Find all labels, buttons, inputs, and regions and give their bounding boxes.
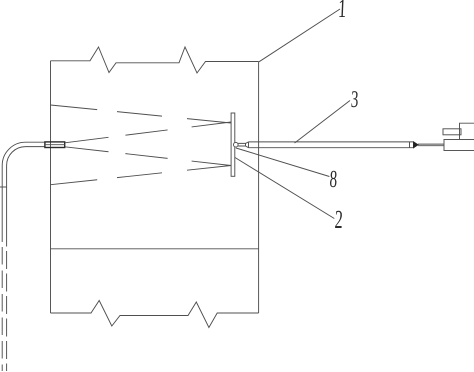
spray line upper from wall: [51, 105, 232, 123]
inner horizontal line: [51, 248, 259, 250]
label 3: [350, 87, 359, 113]
rod tip cone: [414, 142, 419, 148]
svg-text:3: 3: [350, 87, 359, 113]
tank right wall: [258, 62, 260, 314]
spray line upper from nozzle: [65, 122, 231, 143]
svg-text:2: 2: [334, 205, 343, 234]
label 8: [329, 167, 338, 193]
leader line 8: [236, 148, 329, 177]
spray line lower from wall: [51, 166, 232, 185]
label 1: [337, 0, 347, 23]
pipe connector block: [45, 142, 65, 148]
pipe joint tick: [0, 186, 7, 188]
leader line 1: [259, 9, 340, 62]
svg-text:1: 1: [337, 0, 347, 23]
drive block body: [444, 140, 474, 151]
tank top edge with break lines: [51, 47, 259, 73]
label 2: [334, 205, 343, 234]
small block on top: [443, 129, 461, 135]
inlet pipe hidden portion (dashed): [1, 242, 3, 371]
thin shaft link: [418, 144, 444, 146]
spray line lower from nozzle: [65, 147, 231, 166]
leader line 3: [295, 101, 350, 144]
inlet pipe outer wall: [2, 142, 45, 242]
rod 3 body: [249, 142, 414, 148]
rear partial block: [460, 123, 474, 139]
tank bottom edge with break lines: [51, 301, 259, 328]
tank left wall: [50, 61, 52, 313]
probe taper: [246, 142, 249, 148]
svg-text:8: 8: [329, 167, 338, 193]
inlet pipe inner wall: [7, 147, 45, 242]
probe neck: [238, 143, 245, 146]
target plate 2: [231, 113, 235, 176]
probe ball: [234, 142, 239, 147]
leader line 2: [235, 158, 334, 219]
